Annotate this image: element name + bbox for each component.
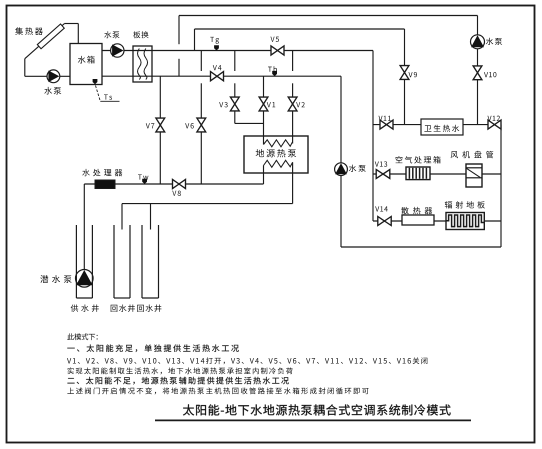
label Tg	[210, 37, 219, 44]
wire vertical x179 lower (jump over pipe1)	[178, 59, 180, 76]
pump P1 水泵 (collector)	[47, 70, 60, 83]
return well 回水井 #1	[114, 225, 130, 298]
valve V9	[400, 66, 409, 80]
wire x341 pump to bottom rail	[340, 176, 342, 247]
label 水箱	[78, 56, 95, 64]
label 水处理器	[82, 169, 122, 176]
label V13	[375, 161, 387, 166]
label 回水井 1	[111, 304, 135, 311]
radiant floor 辐射地板	[446, 213, 484, 230]
return well 回水井 #2	[142, 225, 159, 298]
wire pipe into return well 1	[121, 204, 123, 230]
valve V6	[197, 118, 206, 132]
label 板换	[133, 31, 148, 38]
node Tb sensor	[272, 71, 277, 76]
node Ts sensor	[93, 79, 98, 84]
wire supply well drop pipe	[83, 184, 85, 270]
label 水泵 P2	[104, 31, 119, 38]
wire vertical x179 upper	[178, 16, 180, 45]
wire down to tank top	[77, 24, 79, 44]
wire x477 lower segment	[477, 79, 479, 124]
valve V5	[271, 46, 284, 55]
wire x477 mid segment	[477, 49, 479, 66]
wire right rail x501	[500, 125, 502, 247]
valve V3	[230, 97, 239, 111]
label Tb	[268, 66, 277, 72]
wire V2 branch upper	[292, 51, 294, 72]
valve V8	[173, 179, 186, 188]
label 空气处理箱	[396, 156, 441, 163]
pump P3 潜水泵 (submersible)	[76, 270, 94, 288]
text line 6	[67, 387, 368, 394]
wire Ts leader horizontal	[100, 100, 119, 102]
wire pipe1 (tank top supply)	[102, 50, 373, 52]
plate heat exchanger 板换	[133, 46, 152, 82]
wire x404 lower segment	[404, 79, 406, 125]
wire well return line y204	[122, 203, 293, 205]
label V14	[375, 206, 388, 211]
wire x477 top segment	[477, 16, 479, 36]
label Ts	[104, 94, 112, 99]
fan coil unit 风机盘管	[466, 164, 482, 187]
radiator 散热器	[402, 215, 434, 225]
wire vertical x194 to pipe1	[194, 29, 196, 51]
text line 3	[67, 357, 427, 364]
wire V3 branch lower	[234, 83, 236, 123]
wire V6 branch lower (jump over pipe2)	[200, 83, 202, 184]
wire x404 upper segment	[404, 29, 406, 66]
wire top line 1	[179, 15, 478, 17]
text line 1	[67, 333, 97, 340]
wire to pump P1 and tank	[25, 75, 70, 77]
valve V1	[259, 97, 268, 111]
wire V6 branch upper	[200, 51, 202, 72]
pump P5 水泵 (hot water)	[471, 35, 485, 49]
text line 4	[68, 367, 293, 374]
label V11	[379, 116, 391, 121]
wire collector top to tank	[65, 23, 79, 25]
label V4	[213, 65, 222, 70]
water tank 水箱	[70, 44, 102, 85]
heat pump condenser coil (top zigzag)	[264, 140, 293, 147]
label 风机盘管	[451, 151, 494, 158]
wire top line 2	[195, 28, 405, 30]
valve V10	[473, 66, 482, 80]
wire radiator row y221	[373, 220, 501, 222]
label V2	[296, 102, 305, 107]
node Tw sensor	[142, 179, 147, 184]
heat pump unit 地源热泵 box	[244, 136, 308, 173]
wire V3 to V1 link	[235, 122, 264, 124]
wire left rail x373	[372, 51, 374, 222]
text line 5	[67, 377, 288, 385]
wire AHU row y174	[373, 173, 501, 175]
pump P2 水泵 (tank-HX)	[111, 44, 124, 57]
label 辐射地板	[445, 201, 485, 208]
label V5	[271, 37, 280, 42]
wire V2 branch lower (jump over pipe2)	[292, 83, 294, 143]
wire V7 branch x160	[159, 76, 161, 184]
label V12	[488, 116, 500, 121]
text line 2	[67, 344, 238, 352]
wire V3 branch upper	[234, 51, 236, 72]
valve V11	[380, 120, 393, 129]
label V1	[267, 102, 275, 107]
label V3	[219, 102, 227, 107]
wire pipe into return well 2	[150, 204, 152, 230]
water processor 水处理器	[95, 180, 115, 189]
label 潜水泵	[40, 275, 71, 283]
valve V2	[288, 97, 297, 111]
label V10	[484, 72, 496, 77]
label 水泵 P5	[486, 38, 502, 45]
label 散热器	[401, 207, 432, 214]
air handling unit 空气处理箱	[406, 167, 430, 180]
valve V14	[378, 217, 391, 226]
title	[183, 404, 451, 415]
wire collector diagonal	[25, 24, 65, 59]
label 集热器	[15, 27, 43, 35]
valve V7	[156, 118, 165, 132]
wire HP right-bottom to return line	[292, 162, 294, 203]
label Tw	[138, 174, 148, 179]
valve V4	[211, 72, 224, 81]
label 回水井 2	[137, 304, 161, 311]
label 水泵 P4	[349, 165, 366, 172]
sanitary hot water tank 卫生热水	[421, 119, 463, 135]
wire Ts leader	[96, 86, 101, 102]
label 卫生热水	[424, 125, 459, 132]
label V8	[172, 191, 181, 196]
title underline	[155, 419, 471, 421]
wire well water supply pipe y184	[84, 183, 263, 185]
wire collector bottom down	[24, 59, 26, 77]
wire x341 down to pump P4	[340, 76, 342, 163]
label 地源热泵	[256, 149, 296, 157]
label V9	[409, 72, 418, 77]
node Tg sensor	[214, 45, 219, 50]
wire bottom rail y247	[341, 246, 501, 248]
wire V1 branch	[263, 76, 265, 144]
heat pump evaporator coil (bottom zigzag)	[264, 160, 293, 167]
solar collector 集热器	[37, 24, 64, 49]
wire hot water row y125	[373, 124, 501, 126]
valve V13	[376, 170, 390, 179]
label V7	[146, 123, 155, 128]
pump P4 水泵 (user loop)	[335, 163, 348, 176]
label 供水井	[71, 304, 99, 311]
label V6	[185, 123, 194, 128]
label 水泵 P1	[44, 87, 61, 95]
supply well 供水井	[76, 225, 92, 298]
wire HP left-bottom to supply pipe	[263, 166, 265, 185]
wire pipe2 (tank return)	[102, 75, 341, 77]
valve V12	[488, 120, 501, 129]
